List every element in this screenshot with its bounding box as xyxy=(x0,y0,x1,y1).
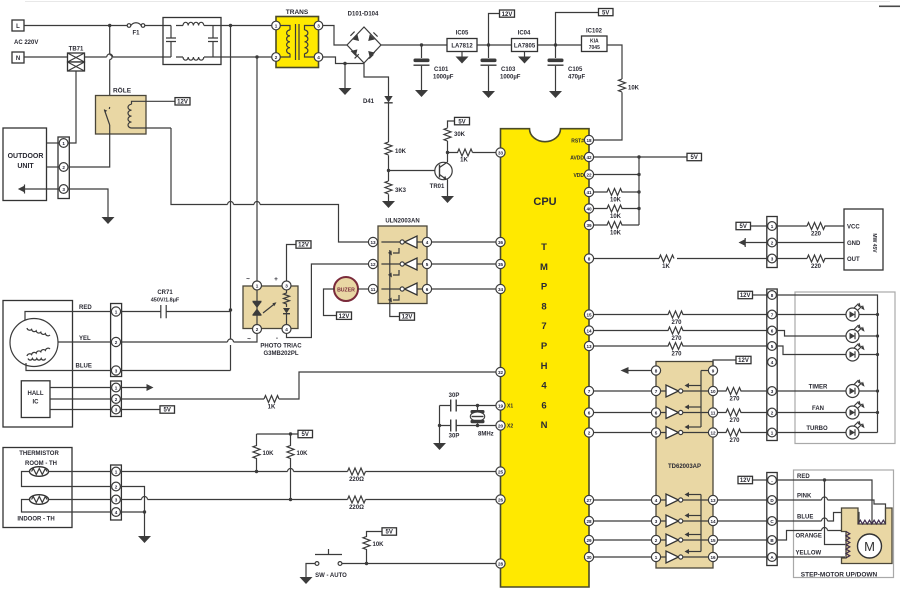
wire pin5 to LED3 xyxy=(776,346,846,355)
LED turbo xyxy=(846,421,878,440)
svg-text:RST#: RST# xyxy=(571,138,584,144)
wire 12V bus across leds xyxy=(776,295,877,433)
svg-text:9: 9 xyxy=(712,368,715,373)
internal arrow xyxy=(263,304,275,314)
svg-text:270: 270 xyxy=(729,438,740,444)
svg-text:6: 6 xyxy=(771,328,774,333)
svg-text:11: 11 xyxy=(711,410,716,415)
12V supply label (motor) xyxy=(738,476,753,484)
svg-text:1: 1 xyxy=(115,309,118,314)
wire 5V to IR pin 1 xyxy=(751,225,767,227)
junction node L to fan line xyxy=(229,24,232,27)
svg-text:L: L xyxy=(16,24,20,30)
svg-text:7: 7 xyxy=(541,321,546,332)
svg-text:LA7805: LA7805 xyxy=(514,44,536,50)
svg-text:IC102: IC102 xyxy=(586,29,603,35)
hall connector box xyxy=(111,381,122,417)
diode common rail lower xyxy=(700,495,702,552)
driver ULN2003AN xyxy=(368,219,431,317)
ULN pin 5 xyxy=(422,259,431,268)
IR connector box xyxy=(767,217,777,268)
ground arrow (TD pin 8) xyxy=(628,370,651,372)
TD pin 4 xyxy=(651,495,660,504)
5V supply label (TR01) xyxy=(455,117,470,125)
svg-text:12V: 12V xyxy=(502,12,513,18)
CPU pin 35 xyxy=(496,259,505,268)
svg-text:270: 270 xyxy=(671,352,682,358)
opto resistor + diac xyxy=(284,290,290,307)
svg-text:5V: 5V xyxy=(691,155,698,161)
svg-text:10K: 10K xyxy=(395,149,407,155)
svg-text:D101-D104: D101-D104 xyxy=(348,12,379,18)
svg-text:4: 4 xyxy=(115,510,118,515)
ground outdoor pin 3 xyxy=(102,217,115,224)
svg-text:3: 3 xyxy=(285,283,288,288)
wire switch to CPU pin 28 xyxy=(342,563,496,565)
svg-text:20: 20 xyxy=(498,423,504,428)
resistor 220ohm (indoor) xyxy=(348,496,366,503)
svg-text:8: 8 xyxy=(655,368,658,373)
svg-text:40: 40 xyxy=(586,206,592,211)
ULN pin 11 xyxy=(368,284,377,293)
svg-text:3: 3 xyxy=(771,389,774,394)
fan conn pin 3 xyxy=(111,366,120,375)
wire 10K tops to 5V xyxy=(257,433,299,435)
resistor 3K3 xyxy=(385,181,392,194)
svg-text:IC05: IC05 xyxy=(456,31,469,37)
wire N rail xyxy=(24,56,68,58)
svg-text:270: 270 xyxy=(671,336,682,342)
wire IC102 out to RST xyxy=(607,45,622,79)
regulator IC04 LA7805 xyxy=(512,31,538,57)
svg-text:IC: IC xyxy=(33,400,40,406)
CPU pin 26 xyxy=(496,495,505,504)
svg-text:1: 1 xyxy=(62,141,65,146)
svg-text:39: 39 xyxy=(586,223,592,228)
wire YELLOW to left coil bottom xyxy=(776,556,845,558)
svg-text:32: 32 xyxy=(498,370,504,375)
svg-text:12V: 12V xyxy=(402,315,413,321)
svg-text:35: 35 xyxy=(498,262,504,267)
wire secondary ground stub xyxy=(344,64,346,89)
junction X2/crystal xyxy=(476,424,479,427)
outdoor pin 1 xyxy=(59,139,68,148)
wire RED drop to left coil centre xyxy=(825,480,846,545)
triac pin 4 xyxy=(282,325,291,334)
wire hall pin1 row xyxy=(50,387,111,389)
CPU pin 42 xyxy=(584,152,593,161)
inverter V (pin6) xyxy=(666,407,679,419)
TD pin 10 xyxy=(708,386,717,395)
capacitor C101 xyxy=(414,45,454,90)
wire outdoor pin 3 to ground xyxy=(68,189,108,217)
fan connector box xyxy=(111,304,122,377)
ground C103 xyxy=(482,91,495,98)
CPU pin 29 xyxy=(584,535,593,544)
wire hall pin2 to 1K to CPU pin 32 xyxy=(120,398,264,400)
resistor 270 (pin13) xyxy=(594,343,767,350)
wire pin6 to LED2 xyxy=(776,331,846,337)
wire 5V bus vertical xyxy=(638,157,640,225)
capacitor C105 xyxy=(548,45,586,91)
capacitor C103 xyxy=(481,45,521,91)
wire pin7 to LED1 xyxy=(776,314,846,316)
reset IC102 KIA7045 xyxy=(582,29,608,52)
5V supply label (IR) xyxy=(736,222,751,230)
svg-text:IC04: IC04 xyxy=(518,31,531,37)
wire D41 to 10K xyxy=(388,103,390,142)
diode D41 xyxy=(363,96,393,105)
svg-text:TRANS: TRANS xyxy=(286,9,309,16)
wire filter to transformer bottom xyxy=(221,56,272,58)
wire X1 row xyxy=(440,405,497,407)
resistor 270 (pin14) xyxy=(594,327,767,334)
thermistor unit box xyxy=(3,448,72,528)
bridge rectifier D101-D104 xyxy=(347,12,381,64)
svg-text:7045: 7045 xyxy=(589,45,600,51)
svg-text:1: 1 xyxy=(275,23,278,28)
svg-text:G3MB202PL: G3MB202PL xyxy=(263,351,298,357)
resistor 10K (pin40) xyxy=(594,205,639,212)
svg-text:7: 7 xyxy=(588,389,591,394)
svg-text:2: 2 xyxy=(115,340,118,345)
wire 12V to led conn pin 8 xyxy=(753,294,767,296)
IR conn pin 2 xyxy=(768,238,777,247)
svg-text:19: 19 xyxy=(498,403,504,408)
svg-text:12V: 12V xyxy=(740,478,751,484)
wire L rail xyxy=(24,25,127,27)
motor connector box xyxy=(767,473,777,566)
fan motor M71 xyxy=(10,319,58,367)
5V supply label (hall) xyxy=(160,406,175,414)
svg-text:STEP-MOTOR UP/DOWN: STEP-MOTOR UP/DOWN xyxy=(801,572,878,579)
wire CPU 6 to TD 6 xyxy=(594,412,652,414)
svg-text:INDOOR - TH: INDOOR - TH xyxy=(17,517,54,523)
wire ORANGE to left coil top xyxy=(776,528,845,541)
wire pin3 to LED timer xyxy=(776,390,846,392)
wire collector to 30K xyxy=(447,141,449,153)
junction to secondary ground xyxy=(343,62,346,65)
svg-text:28: 28 xyxy=(498,561,504,566)
svg-text:3: 3 xyxy=(317,23,320,28)
led conn pin 5 xyxy=(768,342,777,351)
filter cap left xyxy=(166,26,176,58)
CPU pin 39 xyxy=(584,220,593,229)
inverter W (pin5) xyxy=(666,427,679,439)
wire riser to 12V label xyxy=(489,14,500,46)
svg-text:C103: C103 xyxy=(501,67,516,73)
svg-text:TURBO: TURBO xyxy=(806,426,828,432)
wire AC-L drop to fan (x=230.5) with hops xyxy=(230,26,232,371)
svg-text:13: 13 xyxy=(586,344,592,349)
svg-text:7: 7 xyxy=(771,312,774,317)
ground C105 xyxy=(549,91,562,98)
svg-text:PHOTO TRIAC: PHOTO TRIAC xyxy=(260,344,302,350)
clamp diode arrow A xyxy=(393,248,399,253)
resistor 270 (pin11) xyxy=(718,409,767,416)
wire base node to TR01 xyxy=(389,170,437,172)
clamp arrow xyxy=(688,385,701,387)
wire pin1 to LED turbo xyxy=(776,432,846,434)
terminal N xyxy=(12,52,24,63)
wire hall pin3 to 5V xyxy=(120,409,160,411)
svg-text:X1: X1 xyxy=(507,404,513,410)
svg-text:8: 8 xyxy=(541,301,546,312)
junction collector node xyxy=(446,151,449,154)
svg-text:P: P xyxy=(541,282,548,293)
EMI filter box xyxy=(163,18,221,65)
filter cap right xyxy=(208,26,218,58)
svg-text:2: 2 xyxy=(115,397,118,402)
svg-text:FAN: FAN xyxy=(812,406,824,412)
diode common rail xyxy=(390,250,400,317)
wire buzzer to ULN pin 11 xyxy=(358,288,369,290)
inverter D2 (pin1) xyxy=(666,551,679,563)
outdoor pin 3 xyxy=(59,185,68,194)
svg-text:30: 30 xyxy=(586,555,592,560)
wire 5V rail xyxy=(538,44,582,46)
crystal Y1 8MHz xyxy=(470,406,493,438)
TD pin 3 xyxy=(651,516,660,525)
wire pin2 to LED fan xyxy=(776,412,846,414)
svg-text:RED: RED xyxy=(797,474,810,480)
diode common rail upper xyxy=(700,371,702,428)
triac symbol xyxy=(256,290,258,324)
svg-text:8: 8 xyxy=(588,256,591,261)
svg-text:HALL: HALL xyxy=(28,391,44,397)
CPU pin 6 xyxy=(584,408,593,417)
svg-text:18: 18 xyxy=(586,138,592,143)
svg-text:D41: D41 xyxy=(363,99,375,105)
svg-text:6: 6 xyxy=(588,410,591,415)
wire ULN pin 4 to CPU 36 xyxy=(432,241,497,243)
wire triac pin 4 to ULN pin 12 xyxy=(287,264,369,338)
svg-text:12V: 12V xyxy=(339,314,350,320)
svg-text:10K: 10K xyxy=(628,86,640,92)
svg-text:1K: 1K xyxy=(662,264,670,270)
wire PINK to top coil right xyxy=(776,497,885,524)
thermistor INDOOR-TH xyxy=(30,495,49,505)
scan artifact line top right xyxy=(25,1,890,2)
resistor 270 (pin15) xyxy=(594,311,767,318)
wire hall pin3 row xyxy=(50,409,111,411)
TD62003AP body xyxy=(656,362,713,569)
wire indoor-th to conn pin3 xyxy=(49,499,112,501)
wire indoor-th row to 220ohm to CPU pin 26, hop at ground drop xyxy=(120,497,347,500)
junction node N to photo triac line xyxy=(255,55,258,58)
svg-text:3: 3 xyxy=(115,368,118,373)
wire 1K up to pin 32 row xyxy=(279,372,496,399)
wire filter to transformer top xyxy=(221,25,272,27)
svg-text:TR01: TR01 xyxy=(430,184,445,190)
svg-text:12V: 12V xyxy=(298,243,309,249)
resistor 30K xyxy=(444,128,451,141)
TD pin 5 xyxy=(651,428,660,437)
svg-text:4: 4 xyxy=(285,327,288,332)
relay RO1LE xyxy=(96,86,176,135)
resistor 1K (hall) xyxy=(264,396,279,403)
inverter U (pin7) xyxy=(666,385,679,397)
svg-text:~: ~ xyxy=(247,336,251,343)
diode D103 xyxy=(351,49,358,56)
ground IC04 xyxy=(518,57,531,64)
svg-text:OUTDOOR: OUTDOOR xyxy=(8,153,44,160)
CPU pin 33 xyxy=(496,148,505,157)
svg-text:H: H xyxy=(541,361,548,372)
svg-text:30P: 30P xyxy=(449,393,460,399)
12V supply label (TD) xyxy=(736,356,751,364)
thermistor connector box xyxy=(111,465,122,520)
wire bridge bottom to D41 xyxy=(364,63,389,96)
wire triac pin 3 to 12V xyxy=(287,245,297,282)
svg-text:1: 1 xyxy=(771,224,774,229)
wire TD 13 to conn D xyxy=(718,499,767,501)
thermistor ROOM-TH xyxy=(30,467,49,477)
junction base node xyxy=(387,169,390,172)
ground IC05 xyxy=(456,57,469,64)
svg-text:THERMISTOR: THERMISTOR xyxy=(19,451,59,457)
terminal L xyxy=(12,20,24,31)
capacitor 30P upper xyxy=(449,393,460,412)
junction pull-up xyxy=(365,562,368,565)
wire CPU 30 to TD 1 xyxy=(594,556,652,558)
ULN pin 6 xyxy=(422,284,431,293)
th conn pin 3 xyxy=(112,495,121,504)
wire to base node xyxy=(388,155,390,181)
wire relay coil to ULN pin 13, hops at fan and triac drops xyxy=(171,128,369,242)
TD pin 6 xyxy=(651,408,660,417)
LED connector box xyxy=(767,289,777,441)
wire AC-N drop to photo triac pin 1 xyxy=(256,57,258,281)
diode D104 xyxy=(368,51,375,58)
wire pin 42 to 5V xyxy=(594,156,687,158)
svg-text:270: 270 xyxy=(671,320,682,326)
wire pin 22 to bus xyxy=(594,174,639,176)
pull-up 10K (indoor) xyxy=(287,434,308,500)
junction xyxy=(143,510,146,513)
svg-text:5V: 5V xyxy=(458,119,465,125)
LED2 xyxy=(846,324,878,343)
motor conn pin C xyxy=(768,517,777,526)
wire box to pin1 xyxy=(47,142,60,144)
CPU pin 41 xyxy=(584,187,593,196)
ULN pin 13 xyxy=(368,237,377,246)
TD pin 9 xyxy=(708,366,717,375)
12V supply label (relay) xyxy=(175,98,190,106)
wire motor RED lead xyxy=(25,312,112,321)
resistor 220 (VCC) xyxy=(807,223,844,230)
outdoor unit box xyxy=(3,128,47,201)
inverter A xyxy=(405,236,418,248)
clamp diode arrow B xyxy=(393,270,399,275)
svg-text:RED: RED xyxy=(79,305,92,311)
CPU pin 22 xyxy=(584,170,593,179)
th conn pin 1 xyxy=(112,467,121,476)
svg-text:22: 22 xyxy=(586,172,592,177)
clamp arrow xyxy=(688,494,701,496)
junction xyxy=(289,432,292,435)
svg-text:BLUE: BLUE xyxy=(797,515,813,521)
svg-text:BLUE: BLUE xyxy=(76,364,92,370)
ground thermistor common xyxy=(138,536,151,543)
TD pin 15 xyxy=(708,535,717,544)
svg-text:F1: F1 xyxy=(132,31,140,37)
outdoor connector box xyxy=(58,137,69,199)
CPU pin 28 left xyxy=(496,559,505,568)
wire trans pin3 to bridge top xyxy=(323,26,347,46)
svg-text:10K: 10K xyxy=(610,198,622,204)
pull-up 10K (sw) xyxy=(363,532,384,564)
svg-text:UNIT: UNIT xyxy=(17,163,34,170)
svg-text:1: 1 xyxy=(771,430,774,435)
left winding xyxy=(846,532,850,558)
led conn pin 2 xyxy=(768,408,777,417)
wire IR pin2 to GND xyxy=(776,242,844,244)
svg-text:1K: 1K xyxy=(460,158,468,164)
th conn pin 2 xyxy=(112,482,121,491)
svg-text:2: 2 xyxy=(62,165,65,170)
svg-text:270: 270 xyxy=(729,418,740,424)
svg-text:N: N xyxy=(541,420,548,431)
wire 3K3 to ground xyxy=(388,194,390,201)
wire TD 16 to conn A xyxy=(718,556,767,558)
12V supply label xyxy=(500,10,515,18)
svg-text:10: 10 xyxy=(710,389,716,394)
wire TB71 to outdoor pin 1 xyxy=(68,71,76,143)
svg-text:2: 2 xyxy=(256,327,259,332)
CPU pin 27 xyxy=(584,495,593,504)
hall conn pin 3 xyxy=(112,405,121,414)
svg-text:27: 27 xyxy=(586,498,592,503)
LED1 xyxy=(846,303,878,322)
wire CPU 29 to TD 2 xyxy=(594,539,652,541)
ground crystal xyxy=(433,443,446,450)
svg-text:2: 2 xyxy=(588,430,591,435)
wire relay contact to outdoor pin 2 xyxy=(68,125,110,167)
CPU pin 40 xyxy=(584,204,593,213)
wire hall pin1 out arrow xyxy=(120,387,147,389)
wire IR pin1 to 220 to VCC xyxy=(776,225,807,227)
svg-text:CR71: CR71 xyxy=(157,290,173,296)
svg-text:YEL: YEL xyxy=(79,336,91,342)
svg-text:450V/1.8µF: 450V/1.8µF xyxy=(151,298,180,304)
svg-text:12V: 12V xyxy=(177,100,188,106)
resistor 10K (D41 divider) xyxy=(385,142,392,155)
junction RED tap xyxy=(229,308,232,311)
step motor body xyxy=(842,508,893,564)
wire CPU 28 to TD 3 xyxy=(594,520,652,522)
hall conn pin 1 xyxy=(112,383,121,392)
clamp arrow xyxy=(688,426,701,428)
diode D101 xyxy=(352,34,359,41)
junction 10K2 xyxy=(289,498,292,501)
svg-text:2: 2 xyxy=(771,240,774,245)
IR conn pin 1 xyxy=(768,222,777,231)
wire 30K to 5V xyxy=(448,121,455,128)
svg-text:7: 7 xyxy=(655,389,658,394)
motor conn pin D xyxy=(768,496,777,505)
svg-text:10K: 10K xyxy=(297,451,309,457)
junction X1/crystal xyxy=(476,404,479,407)
wire buzzer to 12V xyxy=(324,289,337,316)
12V supply label (ULN common) xyxy=(400,313,415,321)
wire pin2/pin4 to ground xyxy=(120,487,144,537)
ground C101 xyxy=(415,90,428,97)
12V supply label (buzzer) xyxy=(337,312,352,320)
inverter B xyxy=(405,258,418,270)
transformer TRANS xyxy=(272,9,323,68)
svg-text:12V: 12V xyxy=(738,358,749,364)
